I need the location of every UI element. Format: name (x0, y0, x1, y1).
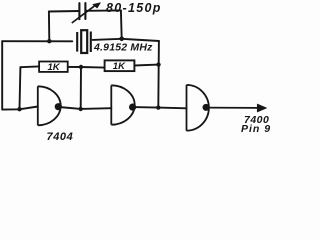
crystal Y1 (77, 30, 91, 53)
svg-text:7404: 7404 (47, 131, 74, 143)
wire: gate2 output to gate3 input (133, 107, 187, 108)
wire: gate1 output to gate2 input (59, 107, 111, 109)
wire: crystal row right (93, 39, 159, 41)
resistor R1 (39, 62, 68, 72)
wire: mid riser to R2 (81, 66, 105, 69)
wire: crystal row left (2, 40, 72, 42)
wire: trimmer right riser (120, 10, 123, 38)
node: gate1 input junction (17, 107, 21, 111)
wire: trimmer top row left (49, 10, 79, 13)
svg-text:4.9152 MHz: 4.9152 MHz (93, 42, 153, 54)
wire: resistor row left of R1 (20, 65, 39, 68)
svg-text:Pin 9: Pin 9 (241, 123, 271, 135)
wire: R1 to mid riser (68, 66, 81, 68)
wire: outer left vertical + gate1 input (2, 41, 38, 109)
wire: trimmer left riser (48, 12, 50, 42)
node: mid riser bottom junction (79, 107, 83, 111)
inverter gate U1B (111, 85, 134, 124)
node: crystal row / trimmer left junction (47, 39, 51, 43)
wire: mid riser (gate1 output to resistor row) (80, 67, 82, 109)
node: gate3 output junction (203, 104, 210, 111)
wire: right feedback riser (157, 41, 160, 108)
node: right riser bottom junction (156, 105, 160, 109)
capacitor C1 trimmer arrow (72, 3, 101, 23)
node: gate1 output junction (55, 103, 62, 110)
svg-text:80-150p: 80-150p (106, 1, 162, 15)
node: crystal row / trimmer right junction (119, 37, 124, 42)
resistor R2 (105, 60, 135, 71)
svg-text:1K: 1K (113, 61, 126, 72)
svg-text:1K: 1K (48, 62, 61, 73)
node: R2 right junction (156, 62, 160, 66)
inverter gate U1A (38, 86, 61, 125)
capacitor C1 trimmer plates (79, 3, 85, 19)
inverter gate U1C (187, 85, 209, 131)
wire: trimmer top row right (86, 9, 121, 11)
wire: R1 input riser (19, 67, 22, 109)
node: gate2 output junction (129, 104, 136, 111)
wire: R2 to right riser (134, 64, 158, 67)
node: mid riser top junction (79, 65, 83, 69)
wire: output arrow (206, 104, 267, 112)
